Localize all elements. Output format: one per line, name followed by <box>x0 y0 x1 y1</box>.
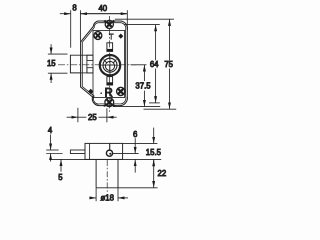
nut circle <box>106 150 112 156</box>
bolt notch upper <box>87 55 93 60</box>
dim 4: tick bottom <box>46 153 62 155</box>
body bottom ext left and right <box>50 158 161 160</box>
dim 64: line upper with arrow <box>155 25 157 61</box>
dim 8/40: extension line mid <box>79 10 81 41</box>
svg-text:15: 15 <box>47 59 56 68</box>
dim 15.5 bottom / 22 top arrow <box>153 160 155 166</box>
nut dot <box>109 153 111 155</box>
svg-text:R: R <box>105 87 113 99</box>
bolt top line <box>81 54 93 56</box>
body top ext right <box>123 142 158 144</box>
dim 75: line upper with arrow <box>169 19 171 60</box>
bolt side view <box>70 150 85 154</box>
dim 6: up arrow below body <box>134 160 136 173</box>
T-mark stem <box>110 35 112 40</box>
slot below cylinder <box>107 77 113 85</box>
dim 22: line with bottom arrow <box>153 160 155 188</box>
dim 8: extension line left <box>70 10 72 48</box>
cylinder core circle <box>105 61 114 70</box>
lock case rectangle <box>93 31 125 98</box>
nut stem line <box>109 144 111 151</box>
T-mark bar <box>109 34 114 35</box>
dim 40: line with arrows <box>80 13 127 15</box>
screw top-center <box>102 19 116 29</box>
dim 25: left outside arrow <box>67 116 78 118</box>
dim 40: extension line right <box>126 10 128 30</box>
svg-text:37.5: 37.5 <box>135 82 151 91</box>
slot above cylinder <box>107 43 113 52</box>
svg-text:ø18: ø18 <box>100 193 113 202</box>
dim 15: arrow top <box>50 44 52 54</box>
screw bottom-right (phillips) <box>116 86 126 96</box>
right ext: bottom ext (75) <box>144 108 177 110</box>
svg-text:75: 75 <box>164 60 173 69</box>
dim 15: arrow bottom <box>50 73 52 83</box>
svg-text:6: 6 <box>133 130 137 139</box>
dim 25: inner segment left <box>78 116 86 118</box>
cylinder centerline <box>106 160 108 193</box>
dim 15: tick bottom <box>48 72 68 74</box>
dim ø18: ext left <box>95 188 97 201</box>
core crosshair horizontal <box>100 64 121 66</box>
svg-text:5: 5 <box>58 173 63 182</box>
dim ø18: ext right <box>117 188 119 201</box>
dim 25: ext line right <box>106 108 108 122</box>
cylinder outer ring <box>100 55 120 75</box>
vertical centerline of lock <box>109 16 111 114</box>
dim 25: right outside arrow <box>107 116 117 118</box>
small dot left of R <box>100 92 102 94</box>
svg-text:8: 8 <box>72 4 76 13</box>
dim 4: lower arrow <box>50 154 52 162</box>
svg-text:40: 40 <box>98 4 107 13</box>
cylinder bottom edge + ext right <box>96 187 158 189</box>
nut center ext right <box>113 153 139 155</box>
core crosshair vertical <box>109 55 111 77</box>
dim 75: line lower with arrow <box>169 69 171 109</box>
right ext: bottom screw center ext (64) <box>149 102 160 104</box>
plate outline (outer) <box>81 21 128 106</box>
core keyway diagonals <box>104 59 117 63</box>
flange line <box>89 143 91 159</box>
dim 37.5: line upper with arrow <box>143 65 145 81</box>
cylinder right edge <box>117 159 119 187</box>
dim 25: inner segment right <box>99 116 107 118</box>
diamond hole top-right <box>118 34 123 39</box>
dim 4: tick top <box>46 149 58 151</box>
svg-text:22: 22 <box>158 169 167 178</box>
cylinder middle circle <box>103 58 117 72</box>
dim 37.5: line lower with arrow <box>143 91 145 107</box>
right ext: top screw center ext (64) <box>124 24 160 26</box>
right ext: top screw top ext (75) <box>115 18 174 20</box>
horizontal centerline of lock <box>58 64 136 66</box>
right ext: plate bottom ext <box>113 106 160 108</box>
bolt guide vertical <box>86 55 88 73</box>
body rectangle <box>85 143 123 159</box>
slot below: dark end <box>107 82 113 85</box>
cylinder left edge <box>95 159 97 187</box>
svg-text:4: 4 <box>48 126 53 135</box>
bolt notch lower <box>87 68 93 73</box>
right ext: centerline ext <box>131 64 147 66</box>
plate outline (inner offset) <box>82 23 126 104</box>
dim 8: outside arrow <box>60 13 71 15</box>
svg-text:15.5: 15.5 <box>146 148 162 157</box>
dim ø18: right outside arrow <box>118 197 128 199</box>
svg-text:64: 64 <box>150 60 159 69</box>
bolt bottom line <box>81 72 93 74</box>
dim 4: upper arrow <box>50 135 52 151</box>
screw top-left (phillips) <box>93 31 102 40</box>
dim 5: arrow <box>60 160 62 172</box>
dim 15: tick top <box>48 53 68 55</box>
dim ø18: left outside arrow <box>89 197 96 199</box>
latch bolt (left protrusion) <box>70 55 81 73</box>
dim 25: ext line left <box>77 108 79 123</box>
dim 15.5: top arrow <box>153 128 155 144</box>
diamond hole bottom-left <box>88 89 93 95</box>
dim 64: line lower with arrow <box>155 69 157 103</box>
screw bottom-center <box>102 97 116 108</box>
dim 6: down arrow <box>134 138 136 153</box>
svg-text:25: 25 <box>88 113 97 122</box>
slot above: dark end <box>107 49 113 52</box>
